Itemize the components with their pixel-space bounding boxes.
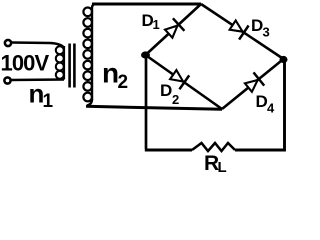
input terminal (bottom) bbox=[4, 77, 10, 83]
svg-text:L: L bbox=[218, 159, 227, 176]
wire: bottom right segment bbox=[235, 59, 285, 150]
svg-text:2: 2 bbox=[118, 72, 129, 93]
transformer core bbox=[68, 44, 71, 88]
diode D4 bbox=[245, 72, 264, 91]
diode D1 bbox=[165, 18, 184, 37]
svg-text:3: 3 bbox=[263, 25, 270, 40]
resistor RL bbox=[192, 143, 235, 151]
svg-text:1: 1 bbox=[43, 91, 54, 112]
svg-text:2: 2 bbox=[172, 92, 179, 107]
wire: bridge edge left-top (D1 branch) bbox=[146, 4, 202, 55]
transformer secondary winding bbox=[83, 4, 95, 106]
svg-text:D: D bbox=[160, 81, 172, 100]
svg-text:D: D bbox=[256, 92, 268, 111]
wire: bridge edge left-bottom (D2 branch) bbox=[146, 55, 223, 109]
svg-text:100V: 100V bbox=[1, 51, 50, 76]
wire: top terminal to primary bbox=[12, 43, 64, 48]
input terminal (top) bbox=[5, 40, 11, 46]
junction node (right, plus output) bbox=[280, 56, 288, 63]
transformer primary winding bbox=[56, 46, 64, 80]
svg-text:D: D bbox=[251, 16, 263, 35]
wire: left node down to load loop bbox=[145, 55, 148, 149]
diode D3 bbox=[230, 21, 249, 40]
svg-text:1: 1 bbox=[153, 17, 160, 32]
wire: bottom terminal to primary bbox=[11, 78, 65, 81]
wire: secondary top to bridge top node bbox=[92, 3, 201, 6]
junction node (left, minus output) bbox=[141, 51, 150, 58]
wire: bridge edge top-right (D3 branch) bbox=[201, 4, 284, 59]
wire: secondary bottom to bridge bottom node bbox=[86, 106, 222, 109]
wire: bottom left segment bbox=[145, 149, 192, 152]
wire: bridge edge bottom-right (D4 branch) bbox=[222, 59, 284, 109]
svg-text:4: 4 bbox=[267, 101, 275, 116]
diode D2 bbox=[170, 70, 189, 89]
